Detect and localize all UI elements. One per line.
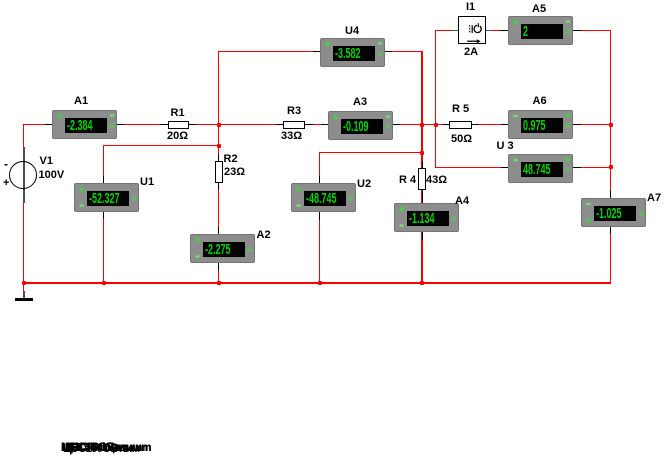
svg-text:A: A	[638, 209, 644, 218]
svg-text:A: A	[565, 121, 571, 130]
svg-text:A: A	[247, 245, 253, 254]
svg-text:V: V	[377, 49, 382, 58]
svg-text:V: V	[131, 194, 136, 203]
svg-text:A: A	[385, 122, 391, 131]
svg-text:A: A	[565, 27, 571, 36]
svg-text:A: A	[109, 121, 115, 130]
svg-text:A: A	[451, 214, 457, 223]
svg-text:V: V	[348, 194, 353, 203]
svg-text:V: V	[565, 165, 570, 174]
